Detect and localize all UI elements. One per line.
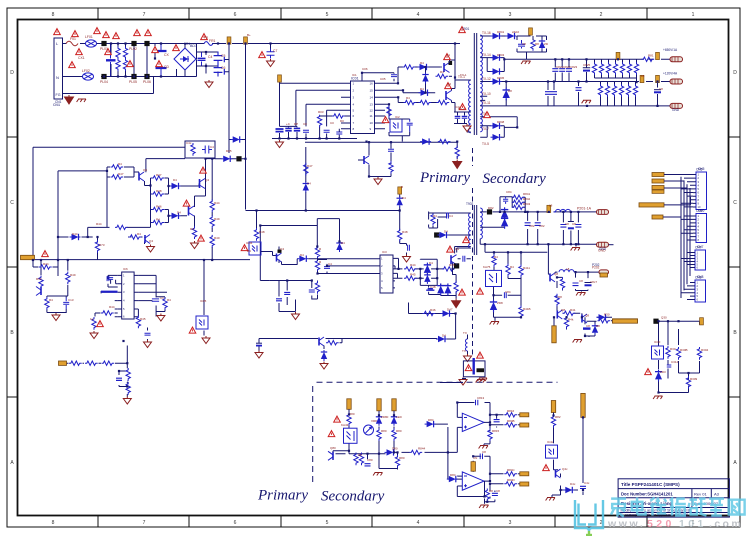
transistor Q01 [444, 61, 452, 73]
resistor R801 [347, 413, 351, 426]
resistor R85 [506, 264, 510, 277]
capacitor C snubber1 [454, 112, 467, 124]
inductor L82 [554, 209, 573, 211]
svg-text:D82: D82 [488, 206, 494, 210]
resistor R69 [404, 276, 417, 280]
testpoint tpb [377, 399, 381, 411]
svg-text:C0: C0 [303, 122, 307, 126]
fusible resistor FR1 [204, 42, 213, 46]
svg-text:Q8: Q8 [561, 308, 565, 312]
wire ic02 to row [126, 346, 128, 364]
capacitor C825 electrolytic [583, 59, 590, 81]
svg-text:R844: R844 [418, 447, 426, 451]
choke LF02 [83, 73, 94, 80]
transformer T2 secondary winding [480, 208, 482, 239]
svg-text:R44: R44 [109, 305, 115, 309]
svg-text:R8: R8 [358, 453, 362, 457]
svg-text:PL05: PL05 [129, 80, 137, 84]
opto IC02 [390, 119, 402, 132]
svg-text:R46: R46 [449, 263, 455, 267]
capacitor C06 [362, 73, 394, 82]
svg-text:4: 4 [417, 520, 420, 526]
svg-text:Q4x: Q4x [562, 467, 568, 471]
svg-text:CN5: CN5 [698, 167, 705, 171]
warning above T1 [459, 27, 466, 33]
svg-text:TX-7: TX-7 [482, 127, 489, 131]
svg-text:D05: D05 [226, 149, 232, 153]
resistor R55 [126, 368, 130, 381]
resistor R64 [315, 246, 319, 259]
svg-text:C8: C8 [496, 489, 500, 493]
capacitor C83c [575, 225, 581, 228]
capacitor C826 [578, 82, 580, 106]
svg-text:CN7: CN7 [697, 245, 704, 249]
resistor R67 [404, 267, 417, 271]
resistor R51 [136, 316, 140, 329]
testpoint in2 [471, 462, 475, 472]
capacitor C83b electrolytic [568, 221, 574, 223]
wire Q02 drain [452, 78, 463, 113]
svg-text:www.: www. [607, 518, 645, 530]
wire tap2 [480, 58, 671, 72]
testpoint mid [398, 187, 402, 194]
transformer T2 primary winding [469, 213, 471, 248]
svg-text:C4: C4 [210, 145, 214, 149]
svg-text:P202: P202 [592, 263, 600, 267]
svg-text:1: 1 [692, 12, 695, 18]
svg-text:520: 520 [647, 518, 675, 530]
svg-text:D843: D843 [497, 53, 505, 57]
resistor R63 [254, 228, 258, 241]
diode D841 [491, 33, 502, 39]
resistor R841 [512, 195, 525, 199]
ground earth rb [653, 396, 662, 399]
svg-text:FG: FG [56, 93, 61, 97]
transformer T1 primary winding [469, 80, 471, 133]
svg-text:N: N [56, 75, 59, 80]
diode D63 [297, 256, 308, 262]
svg-text:TX-14: TX-14 [482, 53, 491, 57]
transistor Q11 [319, 337, 324, 346]
diode D14 bus [420, 138, 431, 144]
svg-text:A3: A3 [714, 492, 720, 497]
svg-text:IC6: IC6 [123, 267, 128, 271]
svg-text:R73: R73 [99, 243, 105, 247]
diode D68 [444, 283, 451, 295]
svg-text:D4: D4 [247, 249, 251, 253]
svg-text:7: 7 [143, 520, 146, 526]
svg-text:5: 5 [326, 520, 329, 526]
op-amp IC01 PWM controller [346, 77, 379, 134]
svg-text:R81: R81 [648, 54, 654, 58]
capacitor C08 [202, 146, 212, 154]
svg-text:PL02: PL02 [129, 47, 137, 51]
svg-text:IC3: IC3 [382, 250, 387, 254]
resistor R11 [403, 65, 416, 69]
diode D803 [385, 449, 396, 455]
svg-text:3: 3 [509, 12, 512, 18]
resistor R53 [85, 361, 98, 365]
svg-text:+650V/1A: +650V/1A [663, 48, 678, 52]
primary secondary boundary dashed line (top) [472, 148, 474, 356]
resistor R45 [39, 276, 43, 289]
svg-text:C8: C8 [572, 222, 576, 226]
resistor R816 [504, 413, 517, 417]
svg-text:T901: T901 [462, 27, 469, 31]
svg-text:C82: C82 [539, 224, 545, 228]
svg-text:R84D: R84D [507, 478, 516, 482]
resistor R91 [564, 316, 568, 329]
svg-text:C4: C4 [449, 214, 453, 218]
resistor R19 [389, 161, 393, 174]
wire mid bus [246, 147, 411, 255]
svg-text:R843: R843 [523, 202, 531, 206]
svg-text:L8: L8 [549, 204, 553, 208]
junction dots gnd row [278, 137, 340, 139]
svg-text:R842: R842 [523, 197, 531, 201]
svg-text:GND: GND [672, 108, 680, 112]
wire opto out [261, 247, 279, 264]
net label cn a [652, 173, 664, 177]
pad PL05 [131, 74, 136, 79]
ground signal under ic02 [144, 340, 152, 348]
capacitor C0D [303, 130, 309, 132]
resistor R03 [317, 115, 321, 128]
testpoint tall lp [552, 326, 556, 343]
resistor R38 [210, 200, 214, 213]
wire tap1 [480, 31, 546, 60]
testpoint rg2 tall [581, 393, 585, 417]
resistor R15 [437, 100, 450, 104]
ground chassis [65, 95, 74, 104]
svg-text:D0: D0 [340, 119, 344, 123]
pad aux [236, 156, 241, 161]
ground signal bus left [276, 140, 284, 148]
warning above Q01 [444, 54, 451, 60]
capacitor C61 [408, 245, 410, 251]
transistor Q07 [145, 235, 150, 244]
svg-text:TX-5: TX-5 [482, 142, 489, 146]
svg-text:8: 8 [52, 12, 55, 18]
svg-text:101: 101 [679, 518, 707, 530]
diode D849 [491, 134, 502, 140]
diode D61 [303, 182, 309, 193]
svg-text:LF01: LF01 [85, 35, 93, 39]
svg-text:FR1: FR1 [209, 39, 216, 43]
svg-text:CX1: CX1 [78, 56, 85, 60]
svg-text:2: 2 [600, 12, 603, 18]
svg-text:TX-1: TX-1 [460, 73, 467, 77]
svg-text:R40: R40 [214, 236, 220, 240]
svg-text:7: 7 [143, 12, 146, 18]
svg-text:Secondary: Secondary [321, 489, 385, 505]
svg-text:D80: D80 [392, 447, 398, 451]
opto IC04 [256, 211, 258, 230]
diode D71 [436, 336, 447, 342]
capacitor C5 [214, 52, 223, 65]
svg-text:D: D [733, 70, 737, 76]
svg-text:16: 16 [370, 82, 374, 86]
warning opto rg [543, 465, 550, 471]
pad PL06 [144, 74, 149, 79]
transformer T2 core [474, 205, 476, 255]
resistor R40 [210, 235, 214, 248]
component designator labels [36, 30, 709, 493]
svg-text:R84C: R84C [507, 468, 516, 472]
svg-text:R8: R8 [535, 42, 539, 46]
testpoint tap1 [529, 28, 533, 35]
wire hv feed [197, 44, 461, 154]
svg-text:Q30: Q30 [661, 316, 667, 320]
testpoint bus1 b [656, 52, 660, 59]
resistor R807 [410, 450, 423, 454]
ground signal snubber [463, 124, 471, 132]
wire ka431 [485, 244, 547, 321]
ground earth opamp2 [479, 505, 488, 508]
transistor Q08 [36, 287, 41, 296]
svg-text:ZD3: ZD3 [660, 370, 666, 374]
net label cn b [652, 179, 664, 183]
diode D83 [501, 207, 508, 220]
ground earth t2 [571, 248, 580, 251]
resistor R12 [436, 74, 449, 78]
svg-text:+120V/4A: +120V/4A [663, 72, 678, 76]
resistor R70 [454, 281, 458, 294]
capacitor C18b [145, 333, 151, 335]
resistor R35 [152, 207, 165, 211]
pad rb2 [653, 319, 658, 324]
svg-text:KA75: KA75 [483, 265, 491, 269]
svg-text:TX-2: TX-2 [458, 107, 465, 111]
capacitor C851 [518, 40, 525, 49]
ground earth rg [546, 498, 555, 501]
resistor R301 [598, 319, 611, 323]
svg-text:CX: CX [164, 53, 169, 57]
wire lower left [33, 260, 68, 313]
svg-text:C06: C06 [362, 67, 368, 71]
resistor R62 [398, 229, 402, 242]
crystal box [463, 361, 485, 377]
watermark url [607, 518, 743, 530]
net label cn c [652, 186, 687, 194]
connector CN7 [692, 246, 706, 271]
resistor R309 [686, 376, 690, 389]
resistor R89 [555, 294, 559, 307]
capacitor C314 [667, 365, 672, 367]
ground earth bus3 [582, 100, 591, 103]
svg-text:B+: B+ [247, 33, 251, 37]
resistor R303 [676, 347, 680, 360]
connector CN1 [53, 38, 63, 108]
wire bus339 [259, 339, 456, 351]
diode D11 [418, 64, 429, 70]
svg-text:C: C [733, 200, 737, 206]
zone number labels bottom [52, 520, 695, 526]
ground earth crystal [478, 378, 487, 381]
connector CN5 [693, 168, 707, 210]
transistor Q05 mosfet [200, 179, 206, 189]
transistor Q06 mosfet [189, 206, 195, 216]
resistor R72 [326, 341, 339, 345]
capacitor C67 electrolytic [256, 342, 262, 344]
border zone ticks right [729, 137, 740, 397]
resistor R17 [438, 139, 451, 143]
wire ic02 left [101, 275, 118, 316]
net label cn long [639, 203, 664, 207]
svg-text:D4: D4 [177, 211, 181, 215]
diode D842 [506, 33, 517, 39]
svg-text:R49: R49 [70, 273, 76, 277]
svg-text:D4: D4 [307, 182, 311, 186]
resistor R56 [126, 382, 130, 395]
capacitor C66 [463, 256, 465, 262]
ground signal Q03 [374, 177, 382, 185]
svg-text:R44: R44 [43, 262, 49, 266]
warning above Q02 [445, 83, 452, 89]
resistor R14 [419, 100, 432, 104]
svg-text:8: 8 [52, 520, 55, 526]
svg-text:C825: C825 [583, 63, 591, 67]
svg-text:VR8: VR8 [371, 419, 377, 423]
ground signal lower left [52, 313, 60, 321]
svg-text:DP: DP [294, 122, 298, 126]
diode D804 [425, 421, 436, 427]
regulator KA432 box [344, 428, 358, 443]
warning crystal top [477, 352, 484, 358]
capacitor C0B [285, 128, 291, 130]
capacitor C7 [267, 49, 275, 59]
opto KA431 box [486, 270, 502, 286]
svg-text:Rev 01: Rev 01 [694, 492, 707, 497]
wire startup verticals [215, 45, 246, 210]
resistor R817 [504, 423, 517, 427]
svg-text:C8: C8 [586, 324, 590, 328]
svg-text:13: 13 [370, 103, 374, 107]
resistor R61 [304, 163, 308, 176]
warning ka432b [334, 416, 341, 422]
svg-text:R82: R82 [555, 415, 561, 419]
svg-text:Q8: Q8 [554, 272, 558, 276]
resistor comb row1 [594, 59, 596, 78]
svg-text:C8: C8 [579, 279, 583, 283]
ground earth opamp1 [479, 446, 488, 449]
warning crystal left [465, 365, 472, 371]
svg-text:R4: R4 [510, 265, 514, 269]
svg-text:C4: C4 [328, 262, 332, 266]
warning Q05 [200, 167, 207, 173]
wire ground bus primary [272, 139, 457, 160]
svg-text:B: B [401, 185, 403, 189]
resistor R33 [152, 176, 165, 180]
svg-text:D84: D84 [450, 473, 456, 477]
capacitor C85 [504, 292, 506, 298]
svg-text:R41: R41 [570, 308, 576, 312]
capacitor C0G [407, 119, 413, 132]
testpoint out3 [520, 472, 529, 476]
svg-text:P201-1A: P201-1A [577, 207, 592, 211]
pad Q10 [454, 263, 459, 268]
svg-text:C8: C8 [565, 222, 569, 226]
wire Q03 [358, 142, 391, 176]
wire connector bus [681, 177, 690, 298]
diode D13 [419, 90, 430, 96]
svg-text:L8: L8 [566, 267, 570, 271]
svg-text:R47: R47 [118, 172, 124, 176]
transistor Q801 [328, 451, 333, 460]
svg-text:D84: D84 [428, 418, 434, 422]
zener D801 [376, 415, 382, 426]
capacitor C813 [476, 400, 478, 406]
testpoint bottom row [59, 361, 67, 365]
diode D87 [597, 314, 608, 320]
ground signal [205, 80, 213, 88]
ground signal C17 [157, 314, 165, 322]
svg-text:R48: R48 [259, 230, 265, 234]
wire aux feed left [33, 147, 185, 260]
svg-text:R304: R304 [701, 348, 709, 352]
svg-text:R4: R4 [118, 162, 122, 166]
testpoint tpc [392, 399, 396, 411]
diode D31 [170, 183, 181, 189]
diode D847 vertical [505, 82, 507, 107]
testpoint rg1 [551, 401, 555, 413]
svg-text:D841: D841 [497, 30, 505, 34]
testpoint TP1 [227, 37, 231, 44]
svg-text:TX: TX [462, 349, 466, 353]
resistor R84 [492, 254, 496, 267]
ground earth sense [373, 473, 382, 476]
svg-text:4: 4 [417, 12, 420, 18]
pad t2 sec [487, 209, 492, 214]
resistor R803 [392, 428, 396, 441]
resistor R73 [431, 213, 435, 226]
wire tap3 [480, 81, 671, 83]
zone letter labels left [10, 70, 14, 466]
diode D05 [231, 136, 242, 142]
svg-text:BD1: BD1 [190, 44, 197, 48]
capacitor C815 [480, 454, 482, 460]
wire t2 rail1 [480, 197, 599, 247]
svg-text:F01: F01 [70, 37, 76, 41]
pad PL03 [144, 41, 149, 46]
testpoint t2 rail [547, 205, 551, 212]
svg-text:R841: R841 [523, 192, 531, 196]
ground signal cluster [292, 312, 300, 320]
wire q09 to ic03 [282, 259, 381, 265]
watermark [575, 498, 745, 535]
testpoint TP3 [278, 75, 282, 82]
opto IC803 [546, 445, 558, 458]
warning ka431 [477, 288, 484, 294]
svg-text:C4x: C4x [186, 141, 192, 145]
warning rb [645, 369, 652, 375]
capacitor CX2 [156, 44, 167, 77]
diode D06 [221, 156, 232, 162]
warning left cluster [42, 251, 49, 257]
capacitor C87 electrolytic [585, 282, 592, 284]
capacitor C0F [336, 132, 342, 134]
testpoint bus2 a [640, 75, 644, 82]
capacitor C83a [560, 225, 566, 228]
capacitor C15 [108, 278, 113, 280]
wire opto frame [389, 119, 410, 142]
svg-text:R46: R46 [156, 205, 162, 209]
svg-text:C05: C05 [380, 77, 386, 81]
capacitor C63 [276, 299, 282, 301]
svg-text:Title PSPF241401C (SMPS): Title PSPF241401C (SMPS) [621, 482, 680, 487]
capacitor C0E [324, 130, 330, 132]
net label rb long [613, 319, 638, 323]
